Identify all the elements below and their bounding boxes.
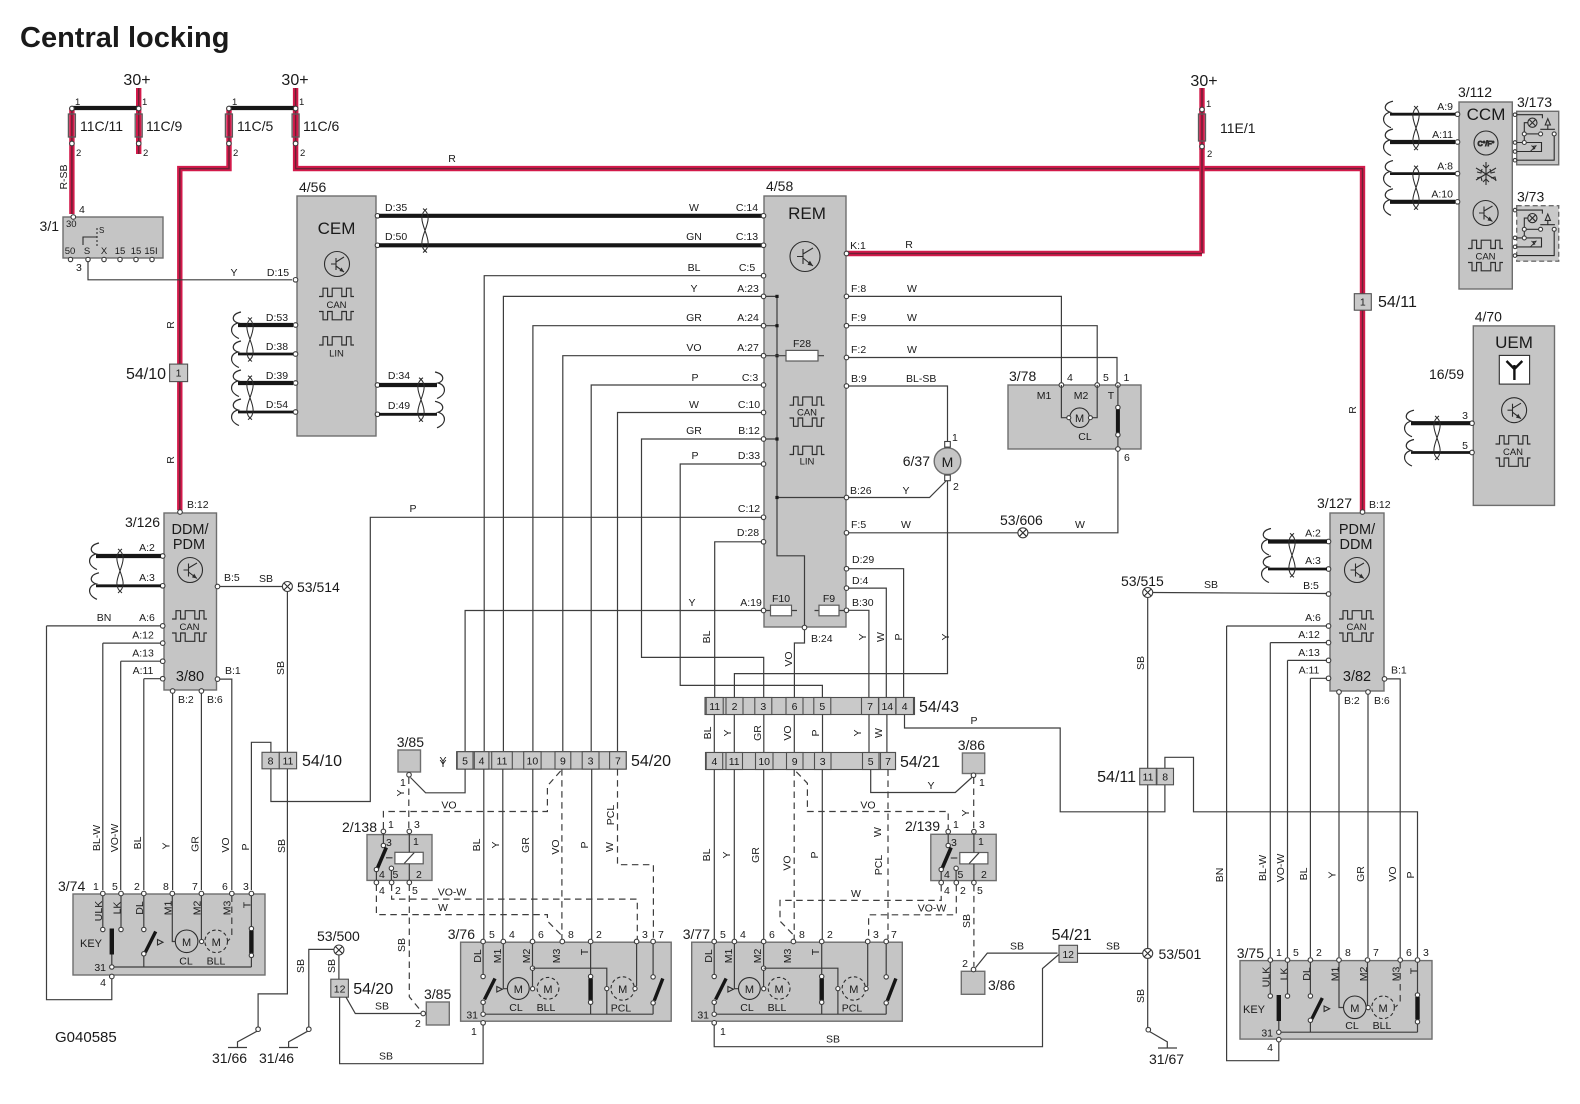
wire GR A:24 [533,326,762,751]
ground 31/46 [259,1027,311,1066]
svg-text:A:3: A:3 [1305,555,1321,567]
wire W C:10 [618,413,763,752]
svg-text:W: W [689,399,699,411]
module 3/76 [448,926,671,1038]
svg-text:CAN: CAN [1475,252,1495,263]
wire SB B:5 to splice [220,586,284,588]
svg-text:K:1: K:1 [850,240,866,252]
internal bus 3/74 [112,966,252,968]
motor BLL 3/77 [762,987,766,991]
CEM pins right [375,214,380,417]
svg-text:A:11: A:11 [133,665,154,677]
svg-text:A:13: A:13 [132,648,154,660]
svg-text:BLL: BLL [207,956,226,968]
wire SB 53/515 down through 54/11 [1147,598,1149,949]
svg-text:Y: Y [230,267,237,279]
svg-text:4: 4 [379,869,385,881]
wires 54/43 to 54/21 [714,715,887,753]
wire R left branch to DDM [180,108,229,510]
twist A:9/A:11 [1413,106,1419,150]
svg-text:D:29: D:29 [852,554,874,566]
LIN icon CEM [319,337,354,345]
wire BL A:11 [144,679,161,890]
svg-text:3/80: 3/80 [176,669,204,685]
wire Y B:30 [848,610,869,697]
svg-text:31: 31 [94,962,106,974]
wire SB dashed 2/138 pin5 to 3/85 lower [409,885,421,1012]
svg-text:VO: VO [686,342,701,354]
PCL switch 3/77 [885,944,887,975]
svg-text:2/138: 2/138 [342,819,377,835]
svg-text:VO: VO [550,839,562,854]
svg-text:LK: LK [1279,968,1291,981]
REM internal bus line [777,296,805,626]
svg-text:PCL: PCL [605,805,617,826]
REM pins right [844,251,849,612]
svg-text:GR: GR [520,837,532,853]
svg-text:B:30: B:30 [852,597,874,609]
svg-text:2/139: 2/139 [905,818,940,834]
svg-text:UEM: UEM [1495,333,1533,352]
svg-text:5: 5 [720,929,726,941]
svg-text:LIN: LIN [800,457,815,468]
svg-text:B:12: B:12 [738,425,760,437]
connector 3/173 [1513,94,1559,165]
module 3/85 upper [397,734,447,789]
svg-text:2: 2 [953,481,959,493]
wire VO-W A:13 right [1288,660,1328,957]
svg-text:SB: SB [961,914,973,928]
wire thick D:35 to REM C:14 [379,214,763,218]
svg-text:3/173: 3/173 [1517,94,1552,110]
wire W dashed 2/139 pin4 to 3/77 pin8 [780,885,941,935]
svg-text:F:8: F:8 [851,283,866,295]
svg-text:3/85: 3/85 [424,986,451,1002]
svg-text:Y: Y [690,283,697,295]
svg-text:M3: M3 [551,949,563,964]
svg-text:D:49: D:49 [388,400,410,412]
svg-text:C°/F°: C°/F° [1478,140,1495,148]
svg-text:3/75: 3/75 [1237,945,1264,961]
wire VO-W dashed 2/138 pin2 to 3/76 pin3 [392,885,638,940]
svg-text:11C/11: 11C/11 [80,118,123,134]
svg-text:W: W [872,827,884,837]
svg-text:3: 3 [1423,947,1429,959]
svg-text:M2: M2 [521,949,533,964]
svg-text:2: 2 [395,885,401,897]
fuse F9 [815,593,847,616]
svg-text:54/11: 54/11 [1097,769,1136,786]
svg-text:A:11: A:11 [1432,129,1453,141]
svg-text:15: 15 [131,246,142,257]
svg-text:3: 3 [243,881,249,893]
module 3/74 [58,878,265,989]
svg-text:W: W [907,312,917,324]
svg-text:6: 6 [1406,947,1412,959]
wire W F:8 to 3/78 pin4 [848,296,1061,383]
svg-text:Y: Y [940,633,952,640]
svg-text:VO: VO [782,725,794,740]
CEM pins left [293,278,298,415]
DL switch 3/74 [143,896,145,928]
wire color labels above 3/75 [1214,854,1399,883]
svg-text:12: 12 [334,984,346,996]
svg-text:BL-SB: BL-SB [906,373,936,385]
svg-text:REM: REM [788,204,826,223]
svg-text:53/514: 53/514 [297,579,340,595]
svg-text:SB: SB [1135,656,1147,670]
svg-text:31: 31 [697,1010,709,1022]
CAN icon PDM [1339,611,1374,619]
svg-text:C:5: C:5 [739,262,756,274]
svg-text:Y: Y [857,633,869,640]
svg-text:54/11: 54/11 [1378,294,1417,311]
svg-text:PCL: PCL [873,855,885,876]
svg-text:CAN: CAN [326,300,346,311]
svg-text:W: W [1075,519,1085,531]
wire pair A:2/A:3 PDM [1268,542,1327,570]
wire color labels above 3/74 [91,824,252,853]
svg-text:Central locking: Central locking [20,22,230,54]
labels CCM pins [1431,101,1453,201]
svg-text:12: 12 [1062,949,1074,961]
svg-text:C:14: C:14 [736,202,758,214]
svg-text:1: 1 [952,432,958,444]
svg-text:2: 2 [300,148,305,159]
svg-text:F:9: F:9 [851,312,866,324]
junction dots REM [775,295,778,499]
svg-text:VO-W: VO-W [109,824,121,853]
svg-text:A:2: A:2 [1305,528,1321,540]
wire Y dashed 3/86 to 2/139 pin3 [973,778,975,830]
connector strip 54/21 [706,753,941,772]
wire SB 54/20-12 to 3/85 lower [346,997,421,1013]
svg-text:7: 7 [615,756,621,768]
svg-text:11C/5: 11C/5 [237,118,274,134]
wire pair A:8/A:10 [1390,174,1455,202]
svg-text:D:4: D:4 [852,575,869,587]
svg-text:1: 1 [720,1026,726,1038]
wire Y from 3/1 S to CEM D:15 [88,262,292,280]
wire SB 54/20-12 down to 3/76 pin1 [340,997,484,1063]
svg-text:VO: VO [782,855,794,870]
wire 30+ stub 11C/9 [136,88,141,146]
twist PDM pair [1289,533,1295,577]
module 3/86 upper [958,737,985,789]
svg-text:SB: SB [375,1001,389,1013]
svg-text:F9: F9 [823,593,835,605]
svg-text:P: P [893,633,905,640]
svg-text:B:2: B:2 [178,694,194,706]
connector 54/10 square 1 [126,364,188,383]
svg-text:1: 1 [1276,947,1282,959]
svg-text:2: 2 [415,1018,421,1030]
svg-text:GR: GR [750,847,762,863]
wire R 11E/1 vertical [1199,108,1204,254]
wire SB 53/501 down to ground [1147,958,1149,1027]
REM pins left [761,214,766,613]
svg-text:7: 7 [867,701,873,713]
svg-text:DDM: DDM [1339,537,1372,553]
connector 54/11 cells 11 8 [1097,768,1173,786]
svg-text:7: 7 [885,756,891,768]
svg-text:1: 1 [953,819,959,831]
T contact 3/77 [821,944,823,975]
svg-text:6: 6 [538,929,544,941]
twist D:35/D:50 [422,209,428,253]
svg-text:GR: GR [752,725,764,741]
svg-text:W: W [873,728,885,738]
svg-text:8: 8 [1345,947,1351,959]
svg-text:3: 3 [873,929,879,941]
module 3/78 [1008,368,1141,449]
svg-text:3/86: 3/86 [958,737,985,753]
svg-text:3: 3 [642,929,648,941]
svg-text:4: 4 [944,885,950,897]
svg-text:5: 5 [868,756,874,768]
svg-text:5: 5 [393,869,399,881]
svg-text:SB: SB [276,839,288,853]
svg-text:VO: VO [860,800,875,812]
svg-text:5: 5 [112,881,118,893]
svg-text:B:12: B:12 [187,499,209,511]
DL switch 3/75 [1309,962,1311,994]
svg-text:53/501: 53/501 [1159,946,1202,962]
ignition switch 3/1 [40,204,163,274]
REM pin B:24 [802,625,807,630]
module UEM 4/70 [1473,309,1554,506]
wire SB 53/515 to B:5 [1153,593,1327,594]
relay 2/138 [342,819,432,897]
svg-text:2: 2 [416,869,422,881]
svg-text:3: 3 [414,819,420,831]
wire CEM D:39 pair [238,370,293,412]
svg-text:D:54: D:54 [266,399,288,411]
svg-text:31/46: 31/46 [259,1050,294,1066]
svg-text:M: M [849,984,858,996]
svg-text:Y: Y [852,729,864,736]
svg-text:1: 1 [471,1026,477,1038]
svg-text:Y: Y [395,789,407,796]
svg-text:C:3: C:3 [742,372,759,384]
svg-text:R-SB: R-SB [58,164,70,189]
svg-text:8: 8 [799,929,805,941]
labels below 54/21 [701,827,885,875]
svg-text:D:38: D:38 [266,341,288,353]
svg-text:C:13: C:13 [736,231,758,243]
wire VO dashed 54/20 cell9 to 3/76 pin8 [561,769,563,939]
fuse 11C/9 [123,72,182,159]
key symbol inside 3/1 [83,237,97,245]
svg-text:P: P [970,715,977,727]
svg-text:5: 5 [819,701,825,713]
svg-text:4: 4 [711,756,717,768]
svg-text:5: 5 [1103,372,1109,384]
wire Y 54/21 cell5 to 3/86 upper [871,770,972,793]
svg-text:M: M [182,937,191,949]
svg-text:F28: F28 [793,338,811,350]
wire VO A:27 [563,356,762,751]
module 3/86 lower [961,958,1015,994]
svg-text:B:2: B:2 [1344,695,1360,707]
svg-text:B:5: B:5 [224,572,240,584]
svg-text:4/70: 4/70 [1475,309,1502,325]
wire Y A:23 [503,296,762,751]
svg-text:B:26: B:26 [850,485,872,497]
svg-text:2: 2 [827,929,833,941]
svg-text:SB: SB [396,938,408,952]
svg-text:3/1: 3/1 [40,218,60,234]
svg-text:T: T [579,948,591,955]
wire link 11C/11 pin1 [72,106,139,110]
LIN icon REM [790,446,825,454]
svg-text:CAN: CAN [179,622,199,633]
svg-text:GR: GR [686,425,702,437]
svg-text:KEY: KEY [1243,1004,1266,1016]
svg-text:5: 5 [412,885,418,897]
wire W D:4 [848,588,886,697]
wire SB 53/500 left arm to ground [309,949,334,1027]
svg-text:9: 9 [560,756,566,768]
svg-text:Y: Y [927,780,934,792]
transistor icon DDM [178,558,203,583]
svg-text:4: 4 [944,869,950,881]
svg-text:BLL: BLL [537,1002,556,1014]
twist D:34/D:49 [418,378,424,422]
transistor icon REM [790,242,820,272]
svg-text:8: 8 [268,756,274,768]
wire Y B:26 net [848,481,947,498]
fuse 11E/1 [1190,73,1255,160]
svg-text:6: 6 [1124,452,1130,464]
svg-text:W: W [604,842,616,852]
svg-text:1: 1 [93,881,99,893]
DDM pin labels [132,499,241,706]
svg-text:BL-W: BL-W [91,825,103,851]
svg-text:M1: M1 [1330,967,1342,982]
svg-text:11: 11 [729,756,740,768]
transistor icon CCM [1473,201,1498,226]
break symbols D:53/D:38 [232,312,241,339]
svg-text:4: 4 [902,701,908,713]
wire 30+ stub 11E/1 [1199,88,1204,150]
REM right pin labels [850,283,936,609]
wire Y dashed 3/85 to 2/138 pin3 [408,778,410,830]
svg-text:4: 4 [100,977,106,989]
break symbols A:9/A:11 [1384,101,1393,128]
wire VO-W dashed 2/139 pin5 to 3/77 pin3 [869,885,957,939]
DDM pins [160,510,219,694]
svg-text:M: M [1350,1003,1359,1015]
wire thick D:50 to REM C:13 [379,243,763,247]
svg-text:Y: Y [902,485,909,497]
svg-text:54/20: 54/20 [353,981,393,998]
wire SB 54/21-12 to splice 53/501 [1078,952,1143,954]
svg-text:9: 9 [792,756,798,768]
wire link 11C/5 pin1 [229,106,296,110]
svg-text:SB: SB [1204,579,1218,591]
svg-text:G040585: G040585 [55,1029,117,1046]
svg-text:R: R [165,456,177,464]
svg-text:6: 6 [792,701,798,713]
connector 54/21 cell12 [1052,927,1092,962]
svg-text:54/21: 54/21 [1052,927,1092,944]
connector 3/73 [1513,189,1559,262]
motor CL 3/74 [172,896,175,942]
svg-text:M2: M2 [1358,967,1370,982]
svg-text:2: 2 [1316,947,1322,959]
break symbols DDM pair [90,543,99,570]
svg-text:50: 50 [65,246,76,257]
relay 2/139 [905,818,996,897]
splice 53/515 [1121,573,1164,598]
REM left pin labels [409,262,761,609]
svg-text:30+: 30+ [1190,73,1217,90]
svg-text:BN: BN [97,612,112,624]
svg-text:M: M [212,937,221,949]
svg-text:PCL: PCL [842,1003,863,1015]
REM internal pin stubs [765,296,777,439]
splice 53/501 [1143,946,1202,962]
svg-text:SB: SB [295,959,307,973]
svg-text:5: 5 [1462,440,1468,452]
svg-text:LIN: LIN [329,349,344,360]
svg-text:GR: GR [686,312,702,324]
PDM pin labels [1298,499,1407,707]
wire W dashed 2/138 pin4 to 3/76 pin8 [376,885,560,935]
wire W dashed 54/21 cell7 to 3/77 pin7 [887,770,889,940]
svg-text:VO: VO [1387,866,1399,881]
connector 54/11 square 1 [1354,294,1417,311]
svg-text:54/10: 54/10 [126,366,166,383]
svg-text:B:1: B:1 [1391,665,1407,677]
svg-text:BL: BL [132,836,144,849]
svg-text:BLL: BLL [1373,1020,1392,1032]
svg-text:R: R [165,321,177,329]
wires 54/21 down to 3/77 [714,770,822,940]
transistor icon CEM [325,252,350,277]
wire W F:9 to 3/78 pin5 [848,326,1097,383]
svg-text:A:9: A:9 [1437,101,1453,113]
ground 31/66 [212,1027,260,1066]
svg-text:1: 1 [142,97,147,108]
svg-text:M: M [775,984,784,996]
svg-text:A:23: A:23 [737,283,759,295]
svg-text:M1: M1 [723,949,735,964]
svg-text:P: P [691,372,698,384]
M3 dashed 3/74 [228,896,232,942]
motor BLL 3/74 [200,896,202,940]
svg-text:KEY: KEY [80,938,103,950]
svg-text:8: 8 [568,929,574,941]
internal bus 3/75 [1279,1031,1418,1033]
motor BLL 3/76 [531,987,535,991]
svg-text:W: W [689,202,699,214]
svg-text:1: 1 [413,836,419,848]
wire VO B:1 right [1387,679,1401,957]
svg-text:6: 6 [769,929,775,941]
svg-text:GR: GR [1355,866,1367,882]
svg-text:5: 5 [489,929,495,941]
svg-text:W: W [438,902,448,914]
connector 54/20 cell12 [331,979,394,998]
svg-text:W: W [901,519,911,531]
wire pair UEM [1411,423,1470,452]
svg-text:D:34: D:34 [388,370,410,382]
motor CL 3/76 [503,944,507,989]
T contact 3/74 [250,896,252,927]
svg-text:10: 10 [527,756,539,768]
